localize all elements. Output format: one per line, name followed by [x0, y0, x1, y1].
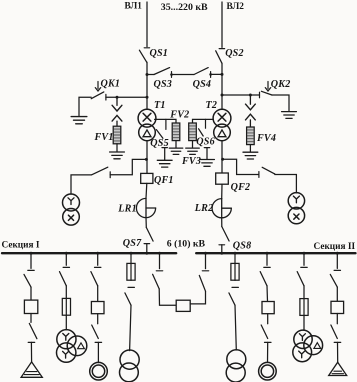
wire LR1 to QS7 [145, 218, 147, 228]
wire tie left to breaker [159, 289, 176, 305]
wire feeder2 to fuse [65, 286, 67, 299]
feeder8 lower disconnector [331, 314, 341, 343]
tie circuit breaker [176, 300, 190, 311]
transformer T1 LV winding [139, 124, 156, 141]
short-circuiter QK2 [260, 91, 272, 98]
ground of FV4 [243, 152, 258, 159]
circuit breaker QF2 [216, 173, 229, 184]
transformer TR3 primary [227, 350, 246, 369]
svg-text:QK1: QK1 [101, 79, 121, 90]
wire TSN2 jog from T2 line [223, 159, 259, 174]
three-winding transformer TR4 tertiary [304, 336, 323, 355]
circuit breaker QF1 [141, 173, 153, 183]
svg-text:T1: T1 [154, 100, 166, 111]
svg-text:QF1: QF1 [154, 175, 174, 186]
junction TSN2 tap [221, 158, 224, 161]
auxiliary transformer TSN1 primary [63, 194, 80, 211]
feeder8 breaker cell [331, 301, 344, 313]
three-winding transformer TR1 secondary [56, 343, 75, 362]
TR1 secondary star [63, 351, 69, 358]
ground of QK2 [282, 112, 297, 119]
wire feeder2 to transformer [65, 315, 67, 330]
synchronous motor M1 [90, 362, 108, 380]
svg-text:ВЛ1: ВЛ1 [125, 1, 143, 11]
arrester FV3 [189, 123, 197, 141]
disconnector QS8 [219, 227, 229, 254]
feeder3 breaker cell [91, 302, 104, 314]
T1 HV winding symbol [143, 113, 151, 121]
wire to TSN1 transformer [71, 175, 91, 194]
reactor LR2 [212, 199, 231, 218]
transformer T1 HV winding [138, 109, 156, 127]
wire feeder3 to motor [97, 342, 99, 362]
svg-text:35...220 кВ: 35...220 кВ [161, 2, 208, 13]
wire feeder8 to cell [336, 287, 338, 301]
busbar section II [196, 252, 355, 254]
svg-text:Секция II: Секция II [314, 242, 356, 252]
svg-text:QS3: QS3 [154, 79, 173, 90]
disconnector QS6 blade [199, 129, 204, 136]
TR4 tertiary delta [314, 343, 321, 349]
T1 LV delta symbol [143, 130, 151, 137]
feeder1 breaker cell [24, 300, 37, 313]
ground of FV3 [186, 148, 200, 154]
svg-text:FV2: FV2 [169, 110, 189, 121]
wire bridge middle segment [172, 74, 195, 76]
junction feeder2-busbar [65, 252, 68, 255]
junction tie left on busbar I [158, 252, 161, 255]
junction feeder5-busbar [234, 252, 237, 255]
TSN1 secondary symbol [68, 215, 73, 220]
wire FV1 to ground [116, 144, 118, 152]
disconnector QS2 [216, 49, 225, 64]
feeder4 disconnector [125, 287, 134, 305]
wire feeder4 to transformer [130, 305, 131, 350]
junction QS7-busbar [145, 252, 148, 255]
svg-text:FV3: FV3 [181, 156, 201, 167]
feeder5 fuse [231, 253, 239, 280]
wire feeder6 to motor [267, 342, 269, 362]
wire ВЛ1 drop to QS1 [146, 2, 148, 47]
junction TSN1 tap [145, 158, 148, 161]
wire bridge from line1 [147, 74, 154, 76]
TSN2 secondary symbol [294, 214, 299, 219]
disconnector QS7 [144, 227, 153, 253]
junction feeder7-busbar [303, 252, 306, 255]
TSN1 primary star symbol [68, 198, 74, 205]
synchronous motor M2 [259, 362, 277, 380]
T2 HV winding symbol [218, 113, 226, 121]
feeder5 disconnector [229, 287, 239, 305]
svg-text:Секция I: Секция I [2, 241, 40, 251]
wire feeder5 to transformer [235, 305, 236, 350]
svg-text:ВЛ2: ВЛ2 [227, 2, 245, 12]
three-winding transformer TR1 primary [57, 330, 76, 349]
svg-text:LR2: LR2 [194, 203, 214, 214]
feeder2 disconnector [60, 253, 70, 286]
disconnector of TSN2 [259, 167, 275, 177]
svg-text:QS8: QS8 [233, 241, 252, 252]
disconnector QS3 [154, 68, 173, 78]
wire TSN1 jog from T1 line [110, 159, 146, 174]
tie disconnector right [199, 253, 208, 291]
electric furnace load 2 [329, 362, 347, 375]
feeder7 fuse [300, 299, 308, 316]
junction line2-bridge [221, 73, 224, 76]
junction feeder6-busbar [266, 252, 269, 255]
TR4 secondary star [299, 351, 305, 358]
disconnector of TSN1 [91, 167, 110, 177]
T2 LV delta symbol [218, 130, 226, 137]
auxiliary transformer TSN2 secondary [288, 207, 304, 223]
junction FV4 tap [249, 94, 252, 97]
wire feeder1 to furnace [30, 342, 32, 362]
feeder2 fuse [62, 298, 70, 315]
disconnector QS1 [139, 48, 149, 63]
arrester FV2 [172, 123, 180, 141]
disconnector QS4 [194, 68, 212, 78]
wire feeder1 to cell [30, 287, 32, 300]
feeder1 lower disconnector [28, 314, 37, 343]
transformer TR2 secondary [119, 363, 138, 382]
wire FV4 to ground [249, 145, 251, 152]
disconnector QS5 blade [156, 130, 163, 139]
feeder7 disconnector [297, 253, 307, 286]
svg-text:QF2: QF2 [231, 182, 251, 193]
junction feeder1-busbar [30, 252, 33, 255]
auxiliary transformer TSN1 secondary [63, 209, 80, 226]
wire bridge to line2 [211, 73, 222, 75]
svg-text:QS6: QS6 [196, 137, 215, 148]
wire FV3 to ground [192, 141, 194, 148]
feeder6 breaker cell [262, 302, 274, 314]
arrow of QK1 drive [95, 82, 100, 92]
TSN2 primary star symbol [293, 196, 299, 203]
wire LR2 to QS8 [221, 218, 223, 227]
wire feeder3 to cell [97, 286, 99, 302]
svg-text:QS7: QS7 [123, 238, 142, 249]
junction feeder8-busbar [336, 252, 339, 255]
short-circuiter QK1 [91, 92, 106, 100]
junction line1-QK1 branch [146, 96, 149, 99]
wire feeder8 to furnace [337, 342, 339, 362]
wire QK1 to ground lead [79, 97, 91, 115]
ground of FV2 [169, 148, 183, 154]
spark gap above FV4 (down arrow) [246, 95, 256, 110]
arrester FV4 [247, 127, 255, 145]
reactor LR1 [136, 198, 155, 217]
feeder4 fuse [127, 253, 135, 280]
wire FV2 to ground [175, 141, 177, 148]
feeder6 lower disconnector [261, 314, 271, 343]
wire QF2 to LR2 [221, 184, 223, 198]
contact drop of QS5 [165, 119, 167, 129]
spark gap above FV4 (up arrow) [246, 114, 256, 127]
TR4 primary star [299, 334, 305, 341]
wire QK1 branch from line1 [106, 96, 147, 98]
wire feeder6 to cell [266, 286, 269, 302]
wire feeder7 to transformer [303, 315, 305, 330]
QS5 earthing stub [162, 148, 167, 160]
svg-text:QS2: QS2 [225, 48, 244, 59]
svg-text:QK2: QK2 [271, 79, 291, 90]
wire QS2 to transformer T2 [221, 63, 223, 109]
svg-text:6 (10) кВ: 6 (10) кВ [167, 239, 206, 250]
junction tie right on busbar II [204, 252, 207, 255]
svg-text:LR1: LR1 [117, 203, 137, 214]
feeder8 disconnector [330, 253, 340, 287]
junction FV1 tap [116, 96, 119, 99]
feeder3 disconnector [91, 253, 101, 286]
junction QS8-busbar [220, 252, 223, 255]
junction line1-bridge [146, 73, 149, 76]
arrow of QK2 drive [265, 82, 270, 92]
wire T1 neutral to FV2 [155, 119, 176, 123]
arrester FV1 [113, 126, 121, 144]
wire QF1 to LR1 [145, 183, 148, 198]
ground of QS5 [157, 160, 172, 167]
three-winding transformer TR4 secondary [293, 343, 312, 362]
contact drop of QS6 [205, 119, 207, 128]
junction feeder3-busbar [96, 252, 99, 255]
TR1 primary star [63, 334, 69, 341]
three-winding transformer TR4 primary [294, 330, 312, 348]
transformer TR3 secondary [226, 363, 245, 382]
svg-text:FV1: FV1 [94, 132, 114, 143]
svg-text:QS4: QS4 [193, 79, 212, 90]
TR1 tertiary delta [78, 343, 85, 349]
feeder1 disconnector [24, 253, 34, 287]
wire ВЛ2 drop to QS2 [221, 2, 223, 47]
feeder3 lower disconnector [92, 314, 102, 343]
wire QK2 to ground lead [272, 95, 289, 111]
wire QS1 to transformer T1 [146, 62, 148, 109]
wire QK2 branch from line2 [222, 94, 260, 96]
wire to TSN2 transformer [275, 174, 297, 193]
wire T2 to QF2 [221, 141, 223, 173]
wire T1 to QF1 [146, 141, 148, 174]
electric furnace load 1 [21, 362, 42, 377]
wire tie right to breaker [190, 291, 205, 304]
transformer T2 HV winding [213, 109, 231, 127]
ground of QK1 [71, 117, 87, 124]
junction feeder4-busbar [130, 252, 133, 255]
feeder6 disconnector [260, 253, 270, 286]
transformer TR2 primary [120, 350, 139, 369]
spark gap above FV1 (down arrow) [112, 97, 122, 111]
ground of FV1 [110, 152, 125, 159]
svg-text:T2: T2 [206, 100, 218, 111]
wire T2 neutral to FV3 [193, 119, 214, 123]
busbar section I [2, 252, 176, 254]
three-winding transformer TR1 tertiary [67, 336, 87, 356]
auxiliary transformer TSN2 primary [288, 193, 304, 209]
spark gap above FV1 (up arrow) [112, 115, 122, 126]
ground of QS6 [200, 160, 215, 167]
transformer T2 LV winding [214, 124, 231, 141]
tie disconnector left [153, 253, 163, 289]
svg-text:QS1: QS1 [150, 48, 169, 59]
wire feeder7 to fuse [303, 286, 305, 299]
QS6 earthing stub [204, 148, 209, 159]
svg-text:FV4: FV4 [256, 133, 276, 144]
junction line2-QK2 branch [221, 94, 224, 97]
